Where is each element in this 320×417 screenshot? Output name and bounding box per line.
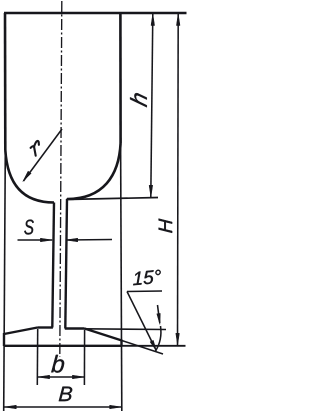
dimension line H <box>177 14 180 345</box>
left foot edge <box>3 333 5 346</box>
right foot edge <box>120 340 122 347</box>
foot bottom line <box>4 345 122 347</box>
right shoulder extension (angle leg) <box>85 328 167 331</box>
left wall <box>4 13 7 150</box>
arrow b left <box>38 375 50 379</box>
web left line <box>52 203 54 328</box>
right extension line (B) <box>121 143 122 411</box>
arrow B right <box>110 405 122 409</box>
centerline (axis) <box>60 1 62 357</box>
dimension line B <box>4 406 122 408</box>
arrow r leader <box>23 171 31 181</box>
right slope extension (angle leg) <box>122 341 163 355</box>
arrow H bottom <box>176 333 180 345</box>
web right line <box>65 199 67 329</box>
15deg arc <box>156 326 161 351</box>
left extension line (B) <box>4 150 6 411</box>
label r (hand-drawn drafting glyph) <box>31 141 39 156</box>
r leader line <box>24 129 63 181</box>
right shoulder <box>65 327 85 329</box>
b extension line right <box>83 330 85 385</box>
dimension line h <box>151 14 153 197</box>
label h <box>130 93 147 107</box>
b extension line left <box>36 329 38 385</box>
h extension line <box>66 198 158 200</box>
arrow 15deg leader tip <box>150 340 157 351</box>
15deg leader tail <box>127 292 156 351</box>
left bowl curve r <box>5 150 54 203</box>
dimension line b <box>38 376 85 378</box>
15deg leader underline <box>127 290 162 293</box>
right bowl curve r <box>67 143 121 199</box>
arrow b right <box>72 375 84 379</box>
left slope 15deg <box>4 328 38 335</box>
dimension line S right <box>66 239 112 242</box>
right wall <box>119 13 122 143</box>
arrow B left <box>4 405 16 409</box>
label 15deg <box>133 270 161 285</box>
top rim line <box>4 12 187 15</box>
label B <box>59 387 72 402</box>
label b <box>51 355 64 373</box>
dimension line S left <box>18 239 53 241</box>
arrow S right <box>66 238 78 242</box>
arrow 15deg upper <box>157 313 161 324</box>
arrow h bottom <box>149 185 153 197</box>
15deg upper arrow stem <box>158 305 160 323</box>
arrow S left <box>40 238 52 242</box>
left shoulder <box>38 326 53 328</box>
arrow H top <box>176 14 180 26</box>
arrow h top <box>151 14 155 26</box>
label S <box>24 220 34 235</box>
label H <box>159 219 173 233</box>
right slope 15deg <box>85 329 122 341</box>
foot bottom extension (H) <box>122 345 186 347</box>
